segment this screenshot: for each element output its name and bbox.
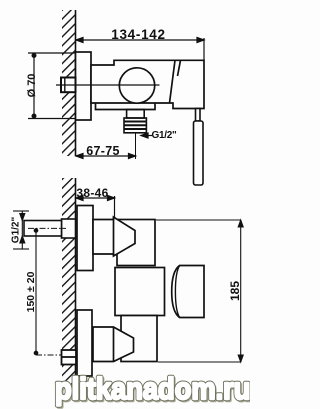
horizontal centerline — [56, 84, 160, 86]
wall face line — [75, 10, 77, 156]
shower outlet stub with threads — [124, 110, 146, 133]
upper cone (shower outlet, pointing right) — [93, 217, 135, 256]
body of mixer (top view) — [91, 60, 204, 108]
svg-text:67-75: 67-75 — [86, 144, 119, 158]
dim 185 — [156, 220, 243, 362]
wall (hatched) bottom view — [62, 178, 76, 387]
upper escutcheon plate (bottom view) — [77, 206, 93, 271]
lower supply fitting (in wall) — [62, 350, 77, 365]
svg-text:plitkanadom.ru: plitkanadom.ru — [55, 372, 250, 406]
upper supply pipe (left of wall) — [24, 219, 76, 238]
dim 38-46 — [76, 196, 115, 225]
G1/2 dim (bottom view, left) — [13, 211, 29, 249]
svg-text:G1/2": G1/2" — [152, 130, 177, 141]
lower box — [121, 316, 157, 362]
svg-text:Ø 70: Ø 70 — [26, 74, 38, 98]
svg-text:185: 185 — [228, 281, 242, 301]
dim 67-75 — [76, 154, 136, 159]
wall (hatched) top view — [62, 10, 76, 156]
main body (bottom view) — [115, 268, 165, 316]
lower escutcheon plate (bottom view) — [77, 310, 92, 376]
wall plate (escutcheon, top view) — [76, 52, 92, 120]
dim O70 — [28, 53, 76, 119]
svg-text:150 ± 20: 150 ± 20 — [25, 271, 37, 312]
svg-text:38-46: 38-46 — [76, 186, 108, 200]
cartridge circle — [119, 68, 154, 103]
svg-text:134-142: 134-142 — [111, 27, 165, 42]
vertical centerline below outlet — [135, 133, 137, 159]
dim 134-142 — [76, 38, 204, 61]
svg-text:G1/2": G1/2" — [11, 217, 22, 244]
flange below body — [96, 103, 156, 110]
inlet fitting in wall (top view) — [61, 78, 76, 93]
slant joint lines — [170, 60, 176, 103]
diverter knob (right) — [172, 266, 204, 318]
G1/2 label (top view) — [141, 133, 152, 138]
dim 150 +- 20 — [34, 228, 38, 355]
upper cartridge housing — [117, 220, 155, 266]
handle lever (top view) — [194, 109, 204, 186]
watermark plitkanadom.ru — [55, 372, 252, 407]
lower cone — [93, 327, 134, 362]
